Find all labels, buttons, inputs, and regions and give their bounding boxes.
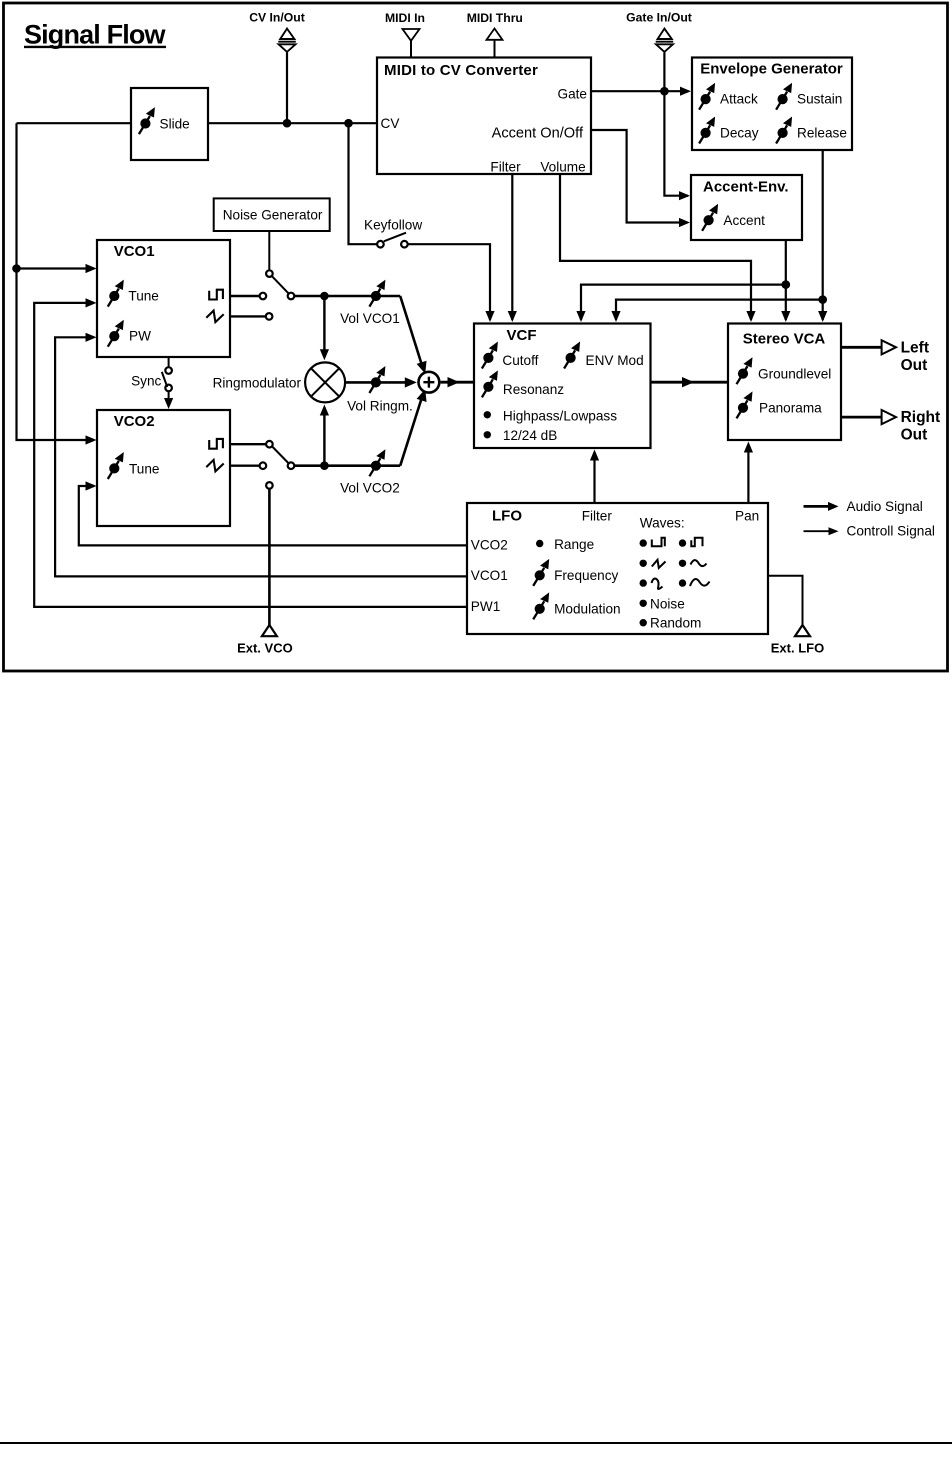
svg-text:Ext. LFO: Ext. LFO [771,641,824,656]
icon wave square [691,538,702,547]
wire VCO2 selector common to mixer node [295,464,401,467]
svg-text:ENV Mod: ENV Mod [586,353,644,368]
wire VCO2 node up to ringmodulator [323,411,325,466]
arrow into ringmodulator top [320,349,329,360]
svg-text:Vol VCO2: Vol VCO2 [340,481,400,496]
svg-text:MIDI In: MIDI In [385,11,425,25]
bullet Highpass/Lowpass [484,411,491,418]
svg-text:Noise Generator: Noise Generator [223,208,323,223]
svg-text:Attack: Attack [720,92,758,107]
wire VCO1 square output [230,295,259,297]
block VCO1 [97,240,230,357]
svg-text:Audio Signal: Audio Signal [847,499,923,514]
junction VCO1 audio node [320,292,329,301]
svg-text:Filter: Filter [582,508,613,523]
block Envelope Generator [692,58,852,151]
wire Volume output to Stereo VCA [560,174,751,320]
knob ENV Mod [564,342,580,369]
svg-text:Modulation: Modulation [554,602,621,617]
svg-text:Slide: Slide [160,116,190,131]
wire EG branch down to VCA [822,300,824,320]
svg-text:Sync: Sync [131,373,161,388]
block Slide [131,88,208,160]
svg-text:Range: Range [554,537,594,552]
svg-text:VCF: VCF [507,327,537,344]
arrow diagonal into mixer top [417,361,431,376]
svg-text:Filter: Filter [490,159,521,174]
wire LFO PW1 output to VCO1 Tune [34,303,467,607]
block LFO [467,503,768,634]
terminal VCO1 saw [266,313,273,320]
arrow into ringmodulator bottom [320,405,329,416]
svg-text:Vol VCO1: Vol VCO1 [340,311,400,326]
wire Keyfollow to VCF [408,244,490,320]
wire Ext LFO to LFO box [768,576,803,626]
wire LFO VCO2 output to VCO2 [79,486,467,545]
svg-text:Panorama: Panorama [759,401,822,416]
svg-text:MIDI Thru: MIDI Thru [467,11,523,25]
connector Ext VCO [237,625,293,656]
wire VCF output to Stereo VCA [651,381,729,384]
arrow ringmod output into mixer [405,377,417,387]
bullet wave ramp [640,579,647,586]
svg-text:Envelope Generator: Envelope Generator [700,60,843,77]
svg-text:Ringmodulator: Ringmodulator [213,376,302,391]
wire Vol VCO2 diagonal into mixer [400,397,422,466]
svg-text:Tune: Tune [128,289,158,304]
svg-text:PW1: PW1 [471,599,500,614]
wire Gate In/Out down through gate junction to Accent-Env [664,53,688,196]
knob VCO1 PW [108,320,124,347]
svg-text:CV: CV [381,116,400,131]
icon wave sine [690,579,710,586]
block Stereo VCA [728,324,841,441]
svg-text:Highpass/Lowpass: Highpass/Lowpass [503,408,617,423]
arrow into Accent-Env accent input [679,218,690,227]
icon wave pulse narrow [652,538,665,547]
bullet wave random [640,619,647,626]
wire ringmodulator output to mixer [346,381,412,384]
arrow into VCO2 CV input [86,435,97,444]
icon wave ramp [652,579,663,589]
terminal VCO2 square [266,441,273,448]
svg-text:Volume: Volume [540,159,585,174]
svg-text:Controll Signal: Controll Signal [847,524,935,539]
knob Vol VCO2 [340,449,400,495]
wire VCO2 saw output [230,465,259,467]
block Noise Generator [214,198,330,231]
svg-text:Accent On/Off: Accent On/Off [492,125,584,141]
arrow Volume into Stereo VCA top [746,311,755,322]
arrow Sync into VCO2 top [164,398,173,409]
wire junction to VCO1 CV input [17,267,95,269]
arrow LFO into VCO1 PW [86,333,97,342]
knob Attack [699,83,715,110]
knob Sustain [776,83,792,110]
knob Panorama [737,391,753,418]
knob Resonanz [482,370,498,397]
connector MIDI In [385,11,425,41]
arrow into VCO1 CV input [86,264,97,273]
svg-text:LFO: LFO [492,507,522,524]
knob Release [776,116,792,143]
block VCF [474,324,651,449]
connector Left Out [882,339,929,374]
knob VCO2 Tune [108,452,124,479]
switch Keyfollow [364,218,422,248]
title Signal Flow [24,20,167,50]
bullet wave square [679,539,686,546]
svg-text:Decay: Decay [720,125,759,140]
arrow EG into VCF top [611,311,620,322]
svg-text:MIDI to CV Converter: MIDI to CV Converter [384,62,538,79]
svg-text:VCO1: VCO1 [471,568,508,583]
bullet wave sine [679,579,686,586]
svg-text:Gate: Gate [558,86,587,101]
terminal VCO2 saw [260,462,267,469]
wire Right Out [841,416,881,419]
svg-text:Frequency: Frequency [554,568,618,583]
arrow LFO Filter into VCF bottom [590,450,599,461]
wire mixer output to VCF [441,381,474,384]
connector Gate In/Out [626,11,692,52]
wire Accent On/Off to Accent-Env [591,130,687,223]
bullet wave saw [640,560,647,567]
wire VCO1 node down to ringmodulator [323,296,325,354]
switch VCO2 source selector lever [272,447,288,464]
junction Accent-Env output branch [782,280,791,289]
svg-text:Cutoff: Cutoff [502,353,538,368]
svg-text:Accent-Env.: Accent-Env. [703,179,789,196]
svg-text:Right: Right [901,409,941,426]
wire Sync into VCO2 [168,392,170,404]
mixer summing node [419,372,440,393]
knob Accent [702,204,718,231]
arrow diagonal into mixer bottom [417,387,431,402]
switch VCO1 source selector lever [272,276,288,293]
svg-text:Vol Ringm.: Vol Ringm. [347,399,413,414]
icon wave triangle [691,560,707,566]
arrow Accent-Env into VCF top [576,311,585,322]
bullet 12/24 dB [484,431,491,438]
bullet LFO Range [536,540,543,547]
bullet wave pulse narrow [640,539,647,546]
terminal noise input [266,270,273,277]
wire Gate output to Envelope Generator [591,90,688,92]
knob VCO1 Tune [108,280,124,307]
wire Left Out [841,346,881,349]
connector MIDI Thru [467,11,523,40]
bullet wave noise [640,600,647,607]
svg-text:Sustain: Sustain [797,92,842,107]
arrow LFO into VCO2 [86,481,97,490]
svg-text:Keyfollow: Keyfollow [364,218,422,233]
switch Sync [131,367,172,391]
junction left vertical to VCO1 [12,264,21,273]
wire Noise Generator down to VCO1 selector [268,231,270,270]
arrow Filter into VCF top [508,311,517,322]
terminal VCO2 selector common [288,462,295,469]
svg-text:VCO2: VCO2 [471,537,508,552]
knob Vol VCO1 [340,280,400,326]
svg-text:Release: Release [797,125,847,140]
wire LFO VCO1 output to VCO1 PW [55,337,467,576]
wire main CV line from left border area through Slide to converter CV pin [17,122,132,124]
arrow VCF output [682,377,694,387]
icon VCO2 square wave [209,439,223,449]
wire LFO Pan output up to VCA bottom [747,446,749,504]
knob LFO Frequency [533,559,549,586]
wire VCO1 sync output [168,357,170,367]
svg-text:PW: PW [129,329,151,344]
terminal VCO1 selector common [288,293,295,300]
wire Keyfollow feed from CV line [349,123,377,244]
svg-text:VCO1: VCO1 [114,243,155,260]
arrow mixer output [448,377,460,387]
arrow EG into VCA top [818,311,827,322]
connector Ext LFO [771,625,824,656]
block Accent-Env [691,175,802,240]
junction Gate wire with Gate In/Out drop [660,87,669,96]
svg-text:Ext. VCO: Ext. VCO [237,641,293,656]
junction CV In/Out on CV line [283,119,292,128]
svg-text:Random: Random [650,616,701,631]
wire MIDI In to converter [410,41,412,58]
arrow into Envelope Generator gate input [680,87,691,96]
knob Decay [699,116,715,143]
svg-text:Gate In/Out: Gate In/Out [626,11,692,25]
icon VCO1 sawtooth wave [206,311,223,323]
svg-text:Groundlevel: Groundlevel [758,366,831,381]
junction VCO2 audio node [320,461,329,470]
ringmodulator [213,362,346,402]
svg-text:Signal Flow: Signal Flow [24,20,167,50]
svg-text:Tune: Tune [129,462,159,477]
bullet wave triangle [679,560,686,567]
wire LFO Filter output up to VCF bottom [593,454,595,504]
wire VCO1 selector common to mixer node [295,295,401,298]
wire Accent-Env branch down to VCA [785,285,787,320]
block VCO2 [97,410,230,526]
arrow LFO Pan into VCA bottom [744,442,753,453]
svg-text:CV In/Out: CV In/Out [249,11,305,25]
svg-text:12/24 dB: 12/24 dB [503,428,557,443]
footer rule [0,1442,952,1444]
arrow LFO into VCO1 Tune [86,298,97,307]
junction Keyfollow tap on CV line [344,119,353,128]
wire Accent-Env output down-left into VCF [581,240,786,320]
icon wave saw [652,560,666,568]
wire Vol VCO1 diagonal into mixer [400,296,422,366]
arrow Keyfollow into VCF top [485,311,494,322]
arrow into Accent-Env gate input [679,191,690,200]
wire left vertical from CV line down to VCO1 and VCO2 [17,123,95,440]
wire CV In/Out down to main CV line [286,53,288,124]
knob Groundlevel [737,357,753,384]
icon VCO1 square wave [209,290,223,300]
icon VCO2 sawtooth wave [206,460,223,472]
knob Vol Ringm [347,366,413,414]
legend controll signal [804,524,935,539]
wire VCO1 saw output [230,315,265,317]
block MIDI to CV Converter [377,58,591,175]
arrow Accent-Env into VCA top [781,311,790,322]
svg-text:Stereo VCA: Stereo VCA [743,330,826,347]
svg-text:Accent: Accent [723,213,765,228]
svg-text:Left: Left [901,339,929,356]
wire MIDI Thru to converter [494,40,496,58]
svg-text:Pan: Pan [735,508,759,523]
svg-text:Waves:: Waves: [640,516,685,531]
svg-text:Noise: Noise [650,596,685,611]
svg-text:Out: Out [901,357,928,374]
svg-text:Out: Out [901,427,928,444]
terminal VCO1 square [260,293,267,300]
legend audio signal [804,499,923,514]
terminal Ext VCO input [266,482,273,489]
svg-text:VCO2: VCO2 [114,413,155,430]
wire Ext VCO up to VCO2 selector [268,489,271,626]
connector Right Out [882,409,941,444]
svg-text:Resonanz: Resonanz [503,382,564,397]
wire Envelope Generator output down-left into VCF [616,150,823,320]
knob LFO Modulation [533,592,549,619]
wire VCO2 square output [230,443,266,445]
knob Cutoff [482,342,498,369]
junction EG output branch [818,295,827,304]
knob Slide [139,107,155,134]
wire Filter output down to VCF [511,174,513,320]
connector CV In/Out [249,11,305,52]
